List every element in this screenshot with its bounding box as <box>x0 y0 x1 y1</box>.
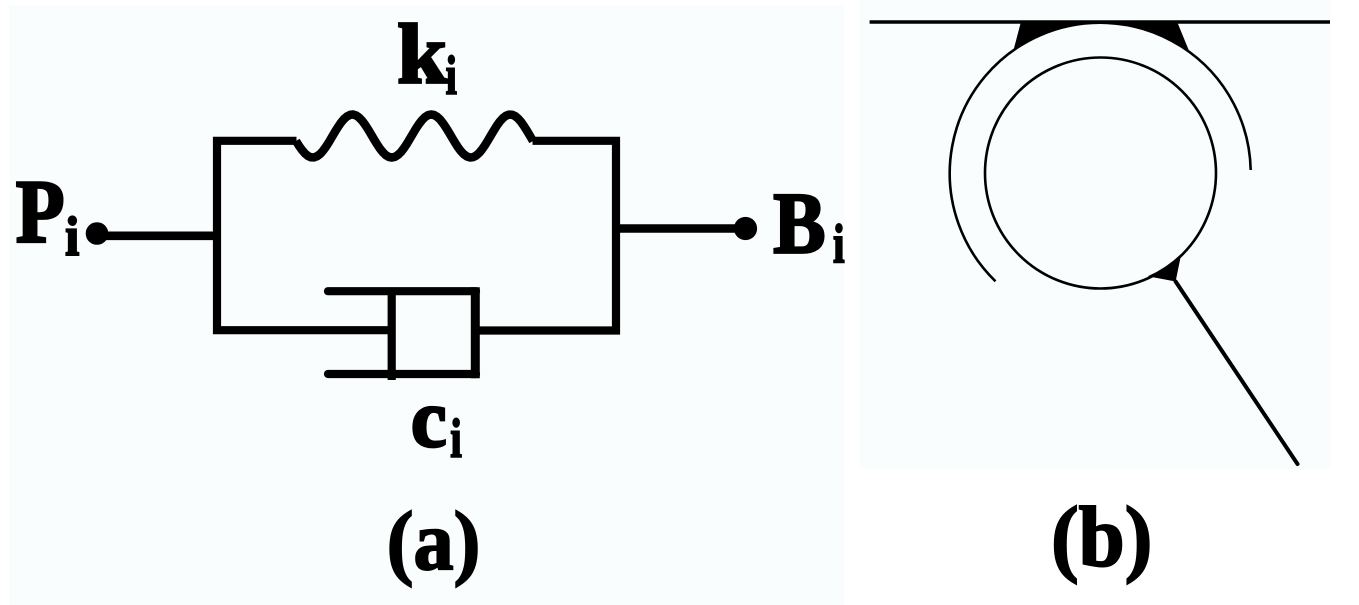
label P subscript i <box>65 206 79 267</box>
label k subscript i <box>446 46 457 106</box>
svg-text:(a): (a) <box>387 495 481 588</box>
svg-text:k: k <box>397 7 447 101</box>
damper cylinder bottom line <box>328 370 476 378</box>
spring k_i <box>296 115 533 158</box>
box left edge + bottom rod to damper piston <box>217 141 392 330</box>
svg-text:i: i <box>833 213 845 275</box>
label P <box>16 162 65 262</box>
wire box to B_i <box>616 224 745 233</box>
damper right end cap <box>471 287 480 378</box>
svg-text:i: i <box>450 408 462 470</box>
svg-text:P: P <box>16 162 65 262</box>
svg-text:c: c <box>411 372 447 465</box>
caption (a) <box>387 495 481 588</box>
inner circle <box>985 58 1216 289</box>
contact fill wedges at top <box>1014 21 1190 53</box>
svg-text:i: i <box>446 46 457 106</box>
damper cylinder top line <box>328 287 476 295</box>
node P_i dot <box>86 222 109 245</box>
label B subscript i <box>833 213 845 275</box>
caption (b) <box>1051 490 1152 585</box>
label B <box>773 174 825 271</box>
svg-text:i: i <box>65 206 79 267</box>
wire P_i to box <box>99 231 217 240</box>
outer arc <box>950 23 1251 282</box>
damper piston plate <box>388 288 396 381</box>
label c subscript i <box>450 408 462 470</box>
label c <box>411 372 447 465</box>
svg-text:(b): (b) <box>1051 490 1152 585</box>
box top right segment + right edge + bottom rod from damper cap <box>475 141 616 331</box>
svg-text:B: B <box>773 174 825 271</box>
link line <box>1176 282 1298 465</box>
ground line <box>870 20 1330 23</box>
pin wedge at link joint <box>1148 254 1182 282</box>
node B_i dot <box>734 217 757 240</box>
label k <box>397 7 447 101</box>
